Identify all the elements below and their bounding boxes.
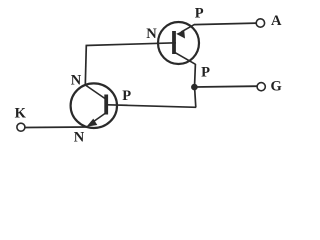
wire: junction to G terminal (195, 85, 257, 88)
wire: A lead (anode) (194, 23, 256, 25)
svg-text:K: K (15, 105, 27, 121)
wire: junction down to Q1 base (vertical) (195, 88, 196, 108)
svg-text:G: G (271, 78, 282, 94)
wire: K lead (cathode) (25, 126, 87, 129)
junction node (dot) (191, 84, 198, 91)
svg-text:P: P (201, 65, 210, 81)
transistor Q1 (NPN, lower-left) (71, 83, 117, 128)
terminal G (257, 83, 265, 91)
svg-text:N: N (146, 26, 157, 42)
svg-text:P: P (195, 5, 204, 21)
wire: Q1 collector riser (vertical) (85, 45, 86, 85)
terminal A (256, 19, 264, 27)
wire: junction to Q1 base (horizontal) (108, 105, 196, 108)
transistor Q2 (PNP, upper-right) (158, 22, 199, 64)
svg-text:P: P (122, 88, 131, 104)
wire: Q1 collector to Q2 base (horizontal run) (86, 43, 177, 46)
terminal K (17, 123, 25, 131)
svg-text:N: N (71, 73, 82, 89)
wire: Q2 collector down to junction (194, 64, 197, 87)
svg-text:A: A (271, 13, 282, 29)
svg-text:N: N (74, 130, 85, 146)
